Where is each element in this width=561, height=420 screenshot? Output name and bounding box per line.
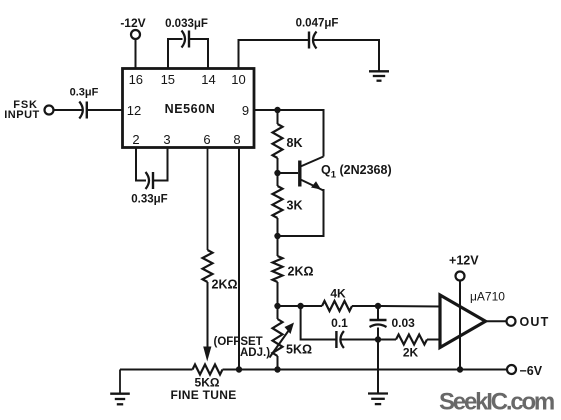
svg-text:0.033μF: 0.033μF: [165, 18, 208, 30]
junction node B: [274, 233, 280, 239]
svg-text:Q1 (2N2368): Q1 (2N2368): [321, 163, 392, 181]
wire pin 8 to rail: [238, 148, 240, 370]
wire -12V to pin 16: [135, 39, 137, 69]
svg-text:0.047μF: 0.047μF: [296, 18, 339, 30]
wire pin 10 to C2: [239, 40, 310, 69]
svg-text:SeekIC.com: SeekIC.com: [439, 389, 554, 416]
op-amp U2 uA710: [440, 295, 486, 348]
svg-text:0.33μF: 0.33μF: [131, 194, 167, 206]
resistor 3K: [277, 173, 279, 186]
junction node D: [297, 303, 303, 309]
svg-text:3: 3: [163, 132, 170, 147]
terminal +12V: [456, 272, 465, 281]
wire rail left: [120, 369, 193, 371]
wire C1 to pin 14: [189, 39, 208, 69]
svg-text:2K: 2K: [403, 346, 419, 360]
svg-text:4K: 4K: [330, 287, 346, 301]
capacitor C4 0.33uF: [152, 172, 154, 189]
transistor Q1: [298, 161, 301, 187]
capacitor C2 0.047uF: [308, 32, 310, 49]
terminal -6V: [507, 365, 516, 374]
svg-text:ADJ.): ADJ.): [240, 347, 270, 359]
svg-text:μA710: μA710: [470, 290, 505, 304]
svg-text:15: 15: [161, 72, 175, 87]
wire C6 to node F: [341, 339, 379, 341]
svg-text:-12V: -12V: [120, 16, 145, 30]
wire base: [278, 172, 299, 174]
wire node E to opamp plus input: [378, 305, 441, 308]
resistor 2Kohm right: [277, 236, 279, 256]
svg-text:OUT: OUT: [520, 315, 550, 329]
svg-text:0.03: 0.03: [392, 316, 416, 330]
wire C2 to ground: [313, 40, 379, 72]
junction node base: [274, 170, 280, 176]
svg-text:2: 2: [132, 132, 139, 147]
wire node F to ground: [377, 340, 379, 394]
junction node C: [274, 303, 280, 309]
resistor 4K: [322, 301, 352, 311]
wire input to C3: [54, 109, 83, 111]
svg-text:12: 12: [127, 103, 141, 118]
junction node A: [274, 107, 280, 113]
wire rail right: [223, 369, 508, 371]
svg-text:+12V: +12V: [449, 254, 479, 268]
svg-text:3K: 3K: [287, 199, 303, 213]
junction pin 8 rail: [236, 366, 242, 372]
capacitor C5 0.03: [370, 319, 387, 321]
wire pin 9 to node A: [254, 109, 278, 111]
resistor 8K: [277, 110, 279, 124]
svg-text:6: 6: [203, 132, 210, 147]
ground bottom left: [119, 370, 121, 394]
potentiometer 5Kohm fine tune: [193, 365, 223, 375]
svg-text:5KΩ: 5KΩ: [286, 343, 312, 357]
IC U1 NE560N: [123, 69, 255, 148]
capacitor C1 0.033uF: [188, 31, 190, 48]
wire C3 to pin 12: [87, 109, 122, 111]
svg-text:FINE TUNE: FINE TUNE: [170, 388, 236, 402]
svg-text:16: 16: [129, 72, 143, 87]
junction pot rail: [274, 366, 280, 372]
wire pin 2 to C4: [136, 148, 146, 181]
junction node F: [375, 336, 381, 342]
wiper arrow: [203, 347, 211, 362]
junction node E: [375, 303, 381, 309]
wire C4 to pin 3: [153, 148, 168, 181]
junction opamp rail: [457, 366, 463, 372]
wire 2Kohm to wiper: [207, 282, 209, 349]
svg-text:−6V: −6V: [520, 364, 543, 378]
wire emitter to node B: [278, 189, 324, 236]
wire node F to R 2K: [378, 339, 396, 341]
svg-text:2KΩ: 2KΩ: [288, 265, 314, 279]
terminal -12V: [131, 30, 140, 39]
svg-text:9: 9: [242, 103, 249, 118]
wire 4K to node E: [352, 305, 378, 307]
capacitor C3 0.3uF: [86, 102, 88, 119]
ground top right: [369, 70, 389, 72]
terminal FSK INPUT: [45, 106, 54, 115]
wire output: [486, 320, 507, 322]
wire +12V to rail: [459, 281, 461, 370]
svg-text:8K: 8K: [287, 136, 303, 150]
wire 2K to opamp minus input: [427, 339, 441, 341]
capacitor C6 0.1: [335, 331, 337, 348]
svg-text:NE560N: NE560N: [165, 102, 216, 116]
terminal OUT: [507, 317, 516, 326]
wire pin 15 to C1: [168, 39, 183, 69]
svg-text:INPUT: INPUT: [4, 109, 40, 121]
ground middle: [368, 392, 388, 394]
wire node D to C6: [301, 306, 337, 340]
wire node D to R 4K: [301, 305, 322, 307]
svg-text:10: 10: [231, 72, 245, 87]
potentiometer 5Kohm offset: [277, 306, 279, 319]
wire node C to node D: [278, 305, 301, 307]
svg-text:2KΩ: 2KΩ: [212, 278, 238, 292]
wire node E to C5: [377, 306, 379, 320]
resistor 2K: [396, 335, 427, 345]
svg-text:8: 8: [233, 132, 240, 147]
svg-text:14: 14: [201, 72, 215, 87]
svg-text:0.3μF: 0.3μF: [70, 87, 99, 99]
svg-text:0.1: 0.1: [331, 316, 348, 330]
wire C5 to node F: [377, 328, 379, 340]
resistor 2Kohm left: [207, 148, 209, 251]
wire node A to collector: [278, 110, 324, 157]
